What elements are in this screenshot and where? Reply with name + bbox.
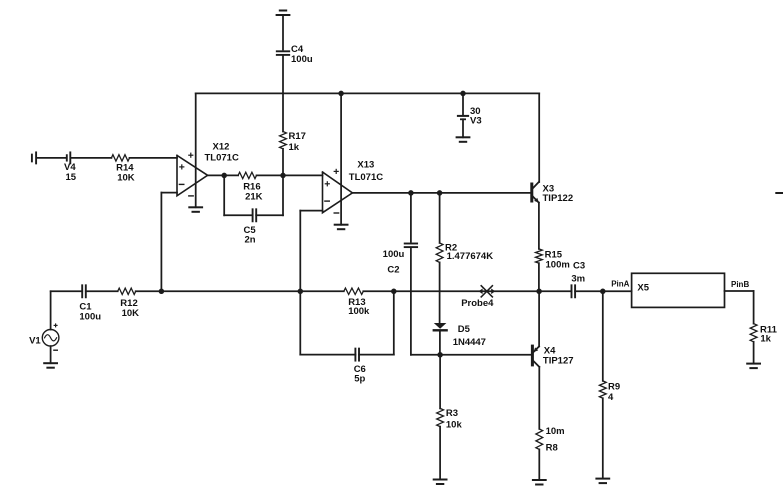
label R11 value	[760, 324, 778, 344]
svg-text:X5: X5	[637, 283, 649, 294]
diode D5	[434, 323, 447, 330]
svg-text:PinA: PinA	[611, 279, 629, 288]
label PinB	[731, 280, 749, 289]
resistor R2	[436, 243, 443, 263]
capacitor C1	[82, 285, 86, 297]
node C3/R9/PinA	[600, 289, 606, 295]
resistor R16	[238, 172, 256, 178]
capacitor C6	[355, 349, 359, 361]
label X4	[543, 346, 574, 367]
capacitor C3	[572, 285, 576, 297]
label C4 value	[291, 44, 313, 65]
svg-text:C3: C3	[573, 261, 585, 272]
wire V+ bus to X12 supply	[195, 93, 197, 207]
node X12 output	[221, 173, 227, 179]
wire node to R9	[602, 291, 604, 381]
resistor R15	[536, 249, 543, 263]
label R15 value	[545, 250, 570, 271]
wire R15 to rail	[538, 263, 540, 291]
label R8 value	[546, 426, 565, 454]
label R3 value	[446, 408, 463, 431]
label X3	[543, 183, 574, 204]
ground (R11)	[747, 364, 760, 369]
svg-text:X12: X12	[213, 142, 230, 153]
wire node to C2	[410, 193, 412, 242]
label X13	[349, 159, 383, 182]
node rail/R15/X4 emitter	[536, 289, 542, 295]
capacitor C5	[253, 209, 257, 221]
svg-text:4: 4	[608, 392, 614, 403]
resistor R11	[750, 324, 757, 342]
wire R2 to D5 (crosses output rail)	[439, 262, 441, 323]
wire C6 loop	[300, 291, 394, 354]
resistor R12	[118, 288, 136, 294]
node output/R2	[437, 190, 443, 196]
node bus/X13 supply	[338, 91, 344, 97]
svg-text:10K: 10K	[117, 172, 135, 183]
resistor R17	[280, 132, 287, 149]
capacitor C4	[277, 51, 289, 55]
label R9 value	[608, 381, 620, 402]
label R12 value	[120, 298, 139, 319]
label V3 value	[470, 106, 482, 126]
svg-text:100u: 100u	[79, 311, 101, 322]
wire R16 to node	[257, 174, 284, 176]
node rail/R13/C6/X13 inverting	[298, 289, 304, 295]
svg-text:2n: 2n	[245, 234, 256, 245]
wire X4 collector to R8	[538, 367, 540, 429]
wire C2 to base node	[411, 249, 440, 355]
wire X13 inverting input	[300, 211, 322, 292]
ground (R9)	[596, 479, 609, 484]
ground (R8)	[533, 480, 546, 485]
svg-text:10m: 10m	[546, 426, 565, 437]
label R13 value	[348, 297, 370, 317]
ground (V3)	[457, 137, 470, 142]
node R13/C6 right	[391, 289, 397, 295]
label R16 value	[243, 181, 262, 202]
subcircuit X5 box	[632, 273, 725, 307]
svg-text:1N4447: 1N4447	[453, 337, 486, 348]
wire C5 branch	[224, 175, 283, 215]
label C1 value	[79, 301, 101, 322]
node bus/V3	[460, 91, 466, 97]
svg-text:V1: V1	[29, 336, 41, 347]
wire bus corner down to X3 collector	[538, 93, 540, 182]
wire X12 output	[208, 174, 239, 176]
ground (X13 supply)	[335, 225, 348, 230]
svg-text:D5: D5	[458, 324, 471, 335]
ground (X12 supply)	[189, 207, 202, 212]
label V4 value	[64, 162, 77, 183]
op-amp X13	[323, 169, 353, 213]
op-amp X12	[177, 153, 208, 196]
resistor R13	[344, 288, 364, 294]
svg-text:X13: X13	[357, 159, 374, 170]
node R12/X12 feedback	[159, 289, 165, 295]
wire rail to X4 emitter	[538, 291, 540, 346]
svg-text:PinB: PinB	[731, 280, 749, 289]
wire X12 inverting input	[161, 193, 177, 292]
label X12	[205, 142, 239, 164]
wire R3 to ground	[439, 427, 441, 480]
svg-text:100u: 100u	[291, 54, 313, 65]
wire PinB to R11	[725, 291, 754, 324]
wire C1 to R12	[86, 290, 118, 292]
wire V1 to ground	[50, 346, 52, 363]
ground (V1)	[44, 363, 57, 368]
label C3 value	[571, 261, 585, 285]
svg-text:1k: 1k	[289, 142, 300, 153]
svg-text:21K: 21K	[245, 191, 263, 202]
wire D5 to base node	[439, 331, 441, 355]
wire ground to C4	[282, 15, 284, 50]
svg-text:100m: 100m	[546, 260, 570, 271]
svg-text:V3: V3	[470, 115, 482, 126]
label R14 value	[116, 162, 135, 183]
node output/C2	[408, 190, 414, 196]
wire stub at right edge	[776, 192, 783, 194]
svg-text:10k: 10k	[446, 419, 463, 430]
wire R14 to X12 noninverting input	[130, 157, 178, 159]
wire X13 supply	[340, 93, 342, 224]
label C5 value	[244, 225, 257, 245]
node R16/R17/C5/X13 input	[280, 173, 286, 179]
svg-text:10K: 10K	[122, 308, 140, 319]
svg-text:R3: R3	[446, 408, 458, 419]
resistor R3	[437, 408, 444, 426]
battery V3	[458, 116, 468, 119]
wire R13 to probe (crosses R2 leg)	[363, 290, 571, 292]
transistor X4	[532, 346, 539, 367]
wire X13 output to X3 base	[352, 192, 530, 194]
ground (inverted, above C4)	[277, 11, 290, 16]
svg-text:15: 15	[66, 172, 77, 183]
label PinA	[611, 279, 629, 288]
label X5	[637, 283, 649, 294]
source V1	[42, 324, 59, 350]
transistor X3	[532, 182, 539, 203]
svg-text:Probe4: Probe4	[461, 298, 494, 309]
svg-text:TIP122: TIP122	[543, 193, 574, 204]
wire X4 base	[440, 354, 531, 356]
svg-text:TIP127: TIP127	[543, 356, 574, 367]
label D5 value	[453, 324, 486, 348]
wire node to R2	[439, 193, 441, 243]
label R2 value	[445, 242, 493, 262]
wire C4 to R17 (crosses V+ bus)	[282, 55, 284, 132]
wire R8 to ground	[538, 449, 540, 480]
label Probe4	[461, 298, 494, 309]
svg-text:5p: 5p	[354, 373, 365, 384]
wire V1 to rail	[50, 291, 52, 329]
resistor R8	[536, 429, 543, 450]
svg-text:R9: R9	[608, 381, 620, 392]
svg-text:100k: 100k	[348, 306, 370, 317]
wire node to X13 noninverting input	[283, 174, 323, 176]
wire R12 to R13	[136, 290, 344, 292]
wire C3 to PinA	[575, 290, 632, 292]
svg-text:R17: R17	[289, 131, 306, 142]
svg-text:C2: C2	[387, 265, 399, 276]
resistor R14	[111, 155, 129, 161]
wire V4 to R14	[71, 157, 111, 159]
node D5/C2/R3/X4 base	[437, 352, 443, 358]
label V1	[29, 336, 41, 347]
svg-text:R8: R8	[546, 442, 558, 453]
wire R9 to ground	[602, 398, 604, 478]
probe Probe4	[479, 286, 496, 297]
wire V+ bus horizontal	[196, 92, 540, 94]
label R17 value	[289, 131, 306, 153]
svg-text:3m: 3m	[571, 274, 585, 285]
wire R11 to ground	[753, 342, 755, 364]
battery V4	[32, 152, 70, 163]
resistor R9	[599, 381, 606, 398]
ground (R3)	[434, 480, 447, 485]
label C2 value	[383, 249, 405, 275]
wire V1 to C1	[51, 290, 82, 292]
label C6 value	[354, 364, 366, 385]
svg-text:TL071C: TL071C	[349, 172, 383, 183]
svg-text:1k: 1k	[760, 333, 771, 344]
wire R17 to node	[282, 149, 284, 176]
wire X3 emitter to R15	[538, 203, 540, 249]
svg-text:TL071C: TL071C	[205, 153, 239, 164]
svg-text:100u: 100u	[383, 249, 405, 260]
wire node to R3	[439, 355, 441, 409]
wire bus to V3	[462, 93, 464, 115]
capacitor C2	[405, 244, 417, 248]
svg-text:1.477674K: 1.477674K	[447, 251, 494, 262]
wire V3 to ground	[462, 119, 464, 137]
